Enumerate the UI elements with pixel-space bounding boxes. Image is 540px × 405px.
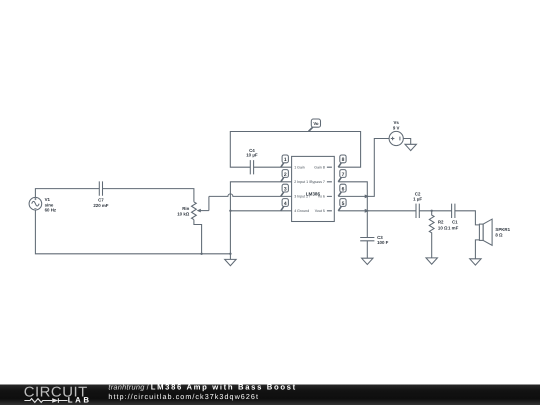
resistor R2 (429, 211, 434, 258)
svg-text:1 mF: 1 mF (448, 226, 459, 231)
svg-text:C7: C7 (98, 197, 104, 202)
svg-text:2: 2 (284, 172, 287, 178)
svg-text:7: 7 (342, 172, 345, 178)
wire: wiper up toward pin 3 (208, 196, 210, 210)
svg-text:tranhtrung / LM386 Amp with Ba: tranhtrung / LM386 Amp with Bass Boost (108, 383, 296, 392)
wire: pin 7 right and down to C3 (338, 182, 367, 238)
pin 2 tag (281, 170, 289, 182)
wire: wiper to pin 3 with hop (209, 194, 292, 197)
ground (R2) (426, 258, 437, 264)
svg-text:10 µF: 10 µF (246, 153, 258, 158)
svg-text:220 mF: 220 mF (93, 203, 108, 208)
svg-text:10 Ω: 10 Ω (438, 226, 448, 231)
wire: pin 2 to ground vertical (230, 182, 291, 254)
op-amp IC U1 LM386 body (292, 156, 335, 221)
capacitor C2 (416, 204, 419, 218)
ground (C3) (362, 258, 373, 264)
wire: Vs right to ground (403, 139, 410, 145)
junction pin4 tee (229, 210, 231, 212)
C1 labels: C1 / 1 mF (448, 219, 459, 230)
capacitor C7 (99, 181, 102, 195)
wire: C2 to C1 (419, 210, 451, 212)
svg-text:4 Ground: 4 Ground (294, 209, 309, 213)
svg-text:4: 4 (284, 201, 287, 207)
C3 labels: C3 / 100 F (377, 235, 389, 245)
svg-text:1 µF: 1 µF (413, 197, 422, 202)
svg-text:Bypass 7: Bypass 7 (310, 180, 325, 184)
pin 7 tag (338, 170, 346, 182)
ground (speaker) (470, 259, 481, 265)
C2 labels: C2 / 1 uF (413, 191, 422, 201)
svg-text:10 kΩ: 10 kΩ (177, 212, 190, 217)
wire: pin 1 to C4 (254, 166, 292, 168)
capacitor C1 (452, 204, 455, 218)
capacitor C4 (250, 160, 253, 174)
svg-text:LAB: LAB (68, 395, 92, 404)
logo doodle wire-resistor-diode (24, 398, 67, 403)
Rin labels: Rin / 10 kOhm (177, 206, 190, 217)
svg-text:1: 1 (284, 157, 287, 163)
svg-text:8 Ω: 8 Ω (495, 233, 503, 238)
ground (Vs) (405, 144, 416, 150)
C7 labels: C7 / 220 mF (93, 197, 108, 208)
svg-text:Vout 5: Vout 5 (315, 209, 325, 213)
svg-text:Vs: Vs (394, 120, 400, 125)
junction C2/R2/C1 (431, 210, 433, 212)
svg-text:100 F: 100 F (377, 240, 389, 245)
svg-text:2 Input 1 /: 2 Input 1 / (294, 180, 310, 184)
pin 3 tag (281, 184, 289, 196)
svg-text:C2: C2 (415, 191, 421, 196)
svg-text:SPKR1: SPKR1 (495, 227, 510, 232)
svg-text:R2: R2 (438, 219, 444, 224)
wire: bottom rail from V1 (35, 210, 230, 254)
voltage source Vs (389, 131, 403, 145)
wire: pin 6 to junction (338, 195, 367, 197)
wire: C3 bottom to ground (366, 241, 368, 258)
logo CIRCUIT text (24, 383, 297, 405)
svg-text:3: 3 (284, 186, 287, 192)
svg-text:Rin: Rin (182, 206, 189, 211)
V1 labels: V1 / sine / 60 Hz (45, 197, 57, 212)
wire: C4 loop over top to pin 8 (230, 132, 360, 168)
wire: Rin bottom to ground rail (194, 220, 202, 254)
potentiometer Rin body (191, 202, 196, 220)
wire: pin 4 to ground vertical (230, 210, 291, 212)
wire: V1 top to C7 (35, 189, 99, 198)
IC internal pin name texts (294, 166, 325, 214)
svg-text:60 Hz: 60 Hz (45, 208, 57, 213)
svg-text:6: 6 (342, 186, 345, 192)
wire: Vout row pin 5 to C2 (338, 210, 416, 212)
pin 4 tag (281, 199, 289, 211)
svg-text:LM386: LM386 (306, 191, 321, 196)
svg-text:http://circuitlab.com/ck37k3dq: http://circuitlab.com/ck37k3dqw626t (108, 392, 259, 401)
junction ground rail (229, 253, 231, 255)
C4 labels: C4 / 10 uF (246, 148, 258, 158)
speaker SPKR1 (479, 219, 492, 245)
node Vo flag (309, 119, 321, 131)
pin 1 tag (281, 155, 289, 167)
svg-text:9 V: 9 V (393, 125, 400, 130)
SPKR1 labels: SPKR1 / 8 Ohm (495, 227, 510, 238)
svg-text:5: 5 (342, 201, 345, 207)
IC right-edge dashes (327, 167, 332, 211)
ground (left) (225, 254, 236, 266)
R2 labels: R2 / 10 Ohm (438, 219, 448, 230)
wire: C7 to potentiometer top (103, 189, 194, 202)
Rin wiper arrow (200, 210, 209, 212)
voltage source V1 (29, 197, 42, 210)
svg-text:1 Gain: 1 Gain (294, 166, 305, 170)
svg-text:8: 8 (342, 157, 345, 163)
capacitor C3 (360, 238, 374, 241)
pin 5 tag (338, 199, 346, 211)
wire: Vs branch down to junction (367, 139, 389, 197)
pin 6 tag (338, 184, 346, 196)
junction arrow Vout row (365, 209, 370, 213)
pin 8 tag (338, 155, 346, 167)
wire: speaker bottom to ground (475, 240, 479, 259)
svg-text:Vo: Vo (313, 121, 319, 126)
wire: C1 to speaker (455, 211, 480, 225)
junction arrow pin6/Vs (365, 194, 370, 198)
junction at pot bottom on rail (200, 253, 202, 255)
svg-text:Gain 8: Gain 8 (314, 166, 325, 170)
Vs labels: Vs / 9 V (393, 120, 400, 131)
svg-text:C1: C1 (452, 219, 458, 224)
